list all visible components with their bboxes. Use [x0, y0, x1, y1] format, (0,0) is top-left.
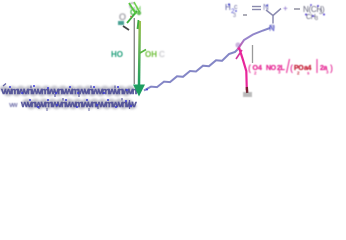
bar glyph: [316, 59, 318, 73]
double dash (=): [252, 6, 261, 8]
blue atom dots row 1: [9, 85, 128, 94]
svg-text:): ): [330, 63, 333, 73]
vertical bond below N: [272, 16, 274, 24]
faint gray label under tip: [243, 92, 252, 97]
svg-text:+: +: [283, 4, 288, 13]
green bond upper-left: [127, 11, 137, 23]
N label blob: [263, 3, 269, 12]
svg-text:C: C: [159, 50, 165, 59]
small gray dash: [243, 14, 247, 16]
phosphate ester bond (pink diagonal): [239, 48, 247, 91]
blue dot at chain start: [146, 89, 148, 91]
teal speck: [118, 21, 124, 25]
svg-text:OH: OH: [145, 50, 157, 59]
svg-text:(: (: [248, 63, 251, 73]
svg-text:3: 3: [326, 70, 329, 75]
bond up to amine (gradient purple): [238, 28, 271, 50]
green arrow shaft: [138, 21, 141, 85]
chain formula text row 2 halo: [25, 102, 134, 105]
row 2 descender: [46, 108, 48, 111]
svg-text:O: O: [119, 12, 126, 22]
dark red bond tip: [246, 87, 249, 93]
svg-text:3: 3: [315, 16, 318, 22]
chain formula text row 2: [25, 102, 134, 105]
svg-text:(: (: [290, 63, 293, 73]
green arrow head: [133, 85, 145, 97]
trimethyl text block: [303, 4, 325, 22]
row ascender ticks: [3, 84, 122, 110]
gray vertical line: [133, 18, 135, 84]
gray dash right: [294, 8, 300, 10]
chain formula text row 1 halo: [2, 89, 132, 92]
slash glyph: [287, 59, 290, 73]
phosphocholine text row (pink): [248, 59, 333, 76]
svg-text:NO: NO: [266, 65, 277, 72]
blue N atom label: [269, 24, 275, 33]
pink cross tick: [236, 50, 242, 59]
chain formula text row 1: [2, 89, 132, 92]
svg-text:c: c: [234, 4, 238, 11]
V bonds to N: [266, 9, 281, 16]
amino text top: [225, 3, 238, 19]
svg-text:): ): [322, 5, 325, 14]
amine junction blob: [269, 24, 275, 30]
junction blob: [235, 42, 240, 47]
green bond upper-right: [138, 20, 139, 29]
green link to OH label: [140, 50, 146, 54]
svg-text:N: N: [269, 24, 275, 33]
svg-text:3: 3: [233, 13, 236, 19]
red speck: [130, 16, 132, 18]
row 2 trailing bar: [129, 100, 131, 109]
green blob right of cluster: [137, 11, 141, 15]
zigzag chain bonds: [144, 50, 238, 91]
svg-text:4: 4: [258, 65, 262, 72]
blue atom dots row 2: [29, 99, 132, 108]
gray vertical bond right: [252, 45, 254, 63]
dark bond segment: [123, 26, 129, 30]
svg-text:wvnwvmwvnvwmwvnwvmwvnwv: wvnwvmwvnvwmwvnwvmwvnwv: [20, 99, 138, 110]
svg-text:vw: vw: [9, 102, 18, 109]
lime chevron strokes: [129, 3, 136, 14]
svg-text:HO: HO: [111, 50, 123, 59]
